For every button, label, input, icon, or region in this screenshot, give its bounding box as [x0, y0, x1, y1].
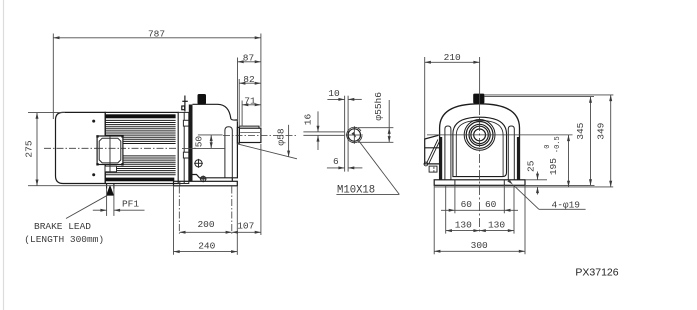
- fan cover screw top: [92, 120, 95, 123]
- dimension 349: [610, 95, 612, 187]
- thread arc: [347, 127, 362, 142]
- center cross vertical: [479, 106, 481, 234]
- flange thick band: [189, 105, 193, 182]
- svg-text:345: 345: [575, 122, 586, 139]
- dimension 275: [28, 113, 174, 186]
- fan cover (brake cover): [56, 112, 106, 183]
- svg-text:10: 10: [328, 88, 340, 99]
- terminal box front: [424, 135, 441, 172]
- dimension 60 right: [480, 209, 518, 211]
- base top tick for 25: [525, 179, 547, 181]
- brake lead arrow: [106, 185, 114, 196]
- brake lead leader: [66, 195, 108, 218]
- svg-text:130: 130: [455, 219, 472, 230]
- svg-text:6: 6: [333, 156, 339, 167]
- dome side walls thick: [440, 137, 442, 180]
- dimension 130 right: [480, 230, 514, 232]
- svg-text:82: 82: [243, 74, 255, 85]
- fan cover screw bottom: [92, 173, 95, 176]
- dimension 71: [242, 101, 261, 127]
- svg-text:240: 240: [198, 241, 215, 252]
- center cross horizontal: [427, 134, 573, 136]
- dimension 195: [568, 135, 570, 187]
- svg-text:60: 60: [485, 199, 497, 210]
- dimension 787: [53, 34, 261, 236]
- svg-text:25: 25: [526, 160, 537, 172]
- dimension 345: [590, 97, 592, 186]
- svg-text:φ58: φ58: [275, 128, 286, 145]
- svg-text:16: 16: [302, 114, 313, 126]
- dimension 82: [239, 79, 261, 128]
- terminal box center line: [109, 136, 111, 172]
- svg-text:787: 787: [148, 29, 165, 40]
- gearbox top line: [193, 104, 238, 120]
- svg-text:PF1: PF1: [122, 199, 139, 210]
- motor cooling fins upper: [105, 120, 175, 143]
- cap top extension line 349: [484, 94, 613, 96]
- conduit PF1 stub: [107, 184, 114, 189]
- svg-text:50: 50: [194, 136, 205, 148]
- svg-text:0: 0: [544, 145, 552, 149]
- centerline over box: [96, 147, 124, 149]
- key top lines horizontal: [303, 132, 344, 136]
- svg-text:195: 195: [548, 158, 559, 175]
- extension lines bottom dims: [434, 185, 525, 254]
- dimension 87: [238, 58, 261, 123]
- svg-text:M10X18: M10X18: [337, 184, 375, 196]
- inner panel outer: [453, 117, 507, 176]
- dimension 16: [317, 111, 319, 150]
- gearbox right face: [232, 120, 237, 181]
- brake housing edge: [183, 112, 185, 183]
- dimension 300: [434, 250, 525, 252]
- base plate pad step: [179, 181, 181, 186]
- dimension 210: [425, 57, 480, 139]
- dimension 6: [327, 167, 363, 169]
- eye bolt on flange: [182, 96, 188, 112]
- cap top extension line 345: [484, 96, 594, 98]
- dimension 10: [327, 98, 361, 100]
- output shaft: [239, 128, 261, 142]
- motor cooling fins lower: [105, 156, 175, 175]
- key on shaft: [239, 126, 259, 128]
- motor centerline: [44, 147, 196, 149]
- dimension 130 left: [446, 230, 480, 232]
- svg-text:87: 87: [243, 53, 254, 64]
- shaft boss circles: [464, 119, 495, 150]
- svg-text:71: 71: [244, 96, 256, 107]
- svg-text:φ55h6: φ55h6: [373, 92, 384, 121]
- svg-text:200: 200: [197, 219, 214, 230]
- shaft centerline: [223, 134, 298, 136]
- dimension 50: [182, 135, 226, 149]
- motor fin body outline: [105, 112, 178, 183]
- svg-text:PX37126: PX37126: [575, 267, 618, 279]
- mounting hole centerline left: [178, 187, 180, 234]
- leader 4-phi19: [514, 185, 586, 209]
- svg-text:300: 300: [471, 240, 488, 251]
- phillips screw lower: [200, 176, 207, 183]
- shaft keyway line: [240, 132, 261, 134]
- phillips screw upper: [194, 159, 203, 168]
- terminal box conduit boss: [105, 166, 117, 172]
- flange left tabs: [183, 120, 188, 126]
- output shaft collar: [237, 127, 239, 143]
- base pad edges: [455, 180, 504, 186]
- slot left: [445, 126, 451, 180]
- dimension 60 left: [441, 209, 480, 211]
- hole center cross: [346, 126, 363, 144]
- dimension 25: [537, 172, 539, 195]
- dimension 107: [232, 231, 261, 233]
- motor fin bottom band: [105, 178, 174, 182]
- breather cap front: [473, 94, 484, 104]
- svg-text:4-φ19: 4-φ19: [552, 200, 581, 211]
- dimension 240: [174, 187, 238, 255]
- svg-text:349: 349: [596, 122, 607, 139]
- motor end bell: [178, 112, 189, 183]
- base plate front: [434, 180, 525, 186]
- motor fin top band: [105, 114, 175, 118]
- base bottom extension 345: [525, 184, 595, 186]
- base plate side view: [174, 181, 238, 186]
- svg-text:(LENGTH 300mm): (LENGTH 300mm): [24, 234, 104, 245]
- terminal box outer: [97, 136, 123, 165]
- dimension phi55h6: [358, 100, 394, 142]
- leader phi58: [237, 125, 297, 159]
- gearbox side arch slot: [225, 127, 232, 178]
- svg-text:60: 60: [461, 199, 473, 210]
- foot gusset: [193, 175, 233, 178]
- svg-text:-0.5: -0.5: [554, 136, 562, 153]
- svg-text:210: 210: [444, 52, 461, 63]
- dimension 200: [179, 231, 232, 233]
- inner panel groove: [456, 120, 503, 176]
- black breather cap (side view): [198, 94, 207, 105]
- terminal box corner screws: [96, 135, 123, 165]
- housing dome outer: [440, 104, 520, 180]
- svg-text:130: 130: [488, 219, 505, 230]
- key side lines vertical: [345, 96, 349, 172]
- leader M10X18: [336, 139, 399, 194]
- svg-text:BRAKE LEAD: BRAKE LEAD: [34, 221, 91, 232]
- slot right: [508, 126, 514, 180]
- page edge line: [3, 0, 5, 310]
- svg-text:275: 275: [24, 140, 35, 157]
- mounting hole centerline right: [231, 187, 233, 234]
- svg-text:107: 107: [237, 221, 254, 232]
- tapped hole M10 circle: [348, 129, 360, 141]
- base pad line: [434, 186, 613, 188]
- dimension PF1: [93, 189, 145, 216]
- terminal box inner octagon: [99, 138, 121, 163]
